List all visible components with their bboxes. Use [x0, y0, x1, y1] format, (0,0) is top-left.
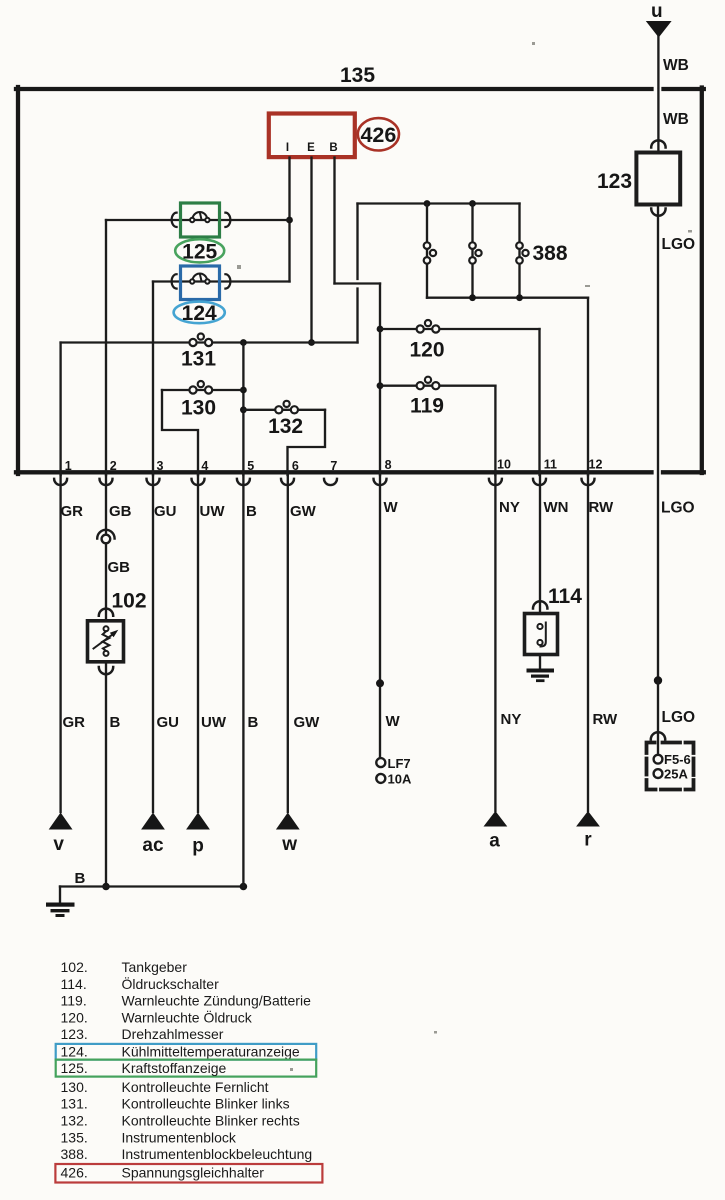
- wire WB from frame to tachometer 123: [657, 89, 659, 152]
- wire B horizontal segment: [335, 282, 381, 284]
- connector hook pin 6: [281, 479, 294, 485]
- wire pin 12 leg down: [587, 298, 589, 475]
- svg-text:124.: 124.: [61, 1043, 88, 1059]
- wire ground bus B: [60, 885, 243, 887]
- oil pressure switch 114 box: [525, 614, 558, 655]
- svg-text:Spannungsgleichhalter: Spannungsgleichhalter: [122, 1165, 265, 1181]
- svg-text:Instrumentenblock: Instrumentenblock: [122, 1129, 237, 1145]
- junction bottom bus drop 3: [516, 294, 523, 301]
- svg-text:132: 132: [268, 415, 303, 438]
- svg-text:Kontrolleuchte Blinker rechts: Kontrolleuchte Blinker rechts: [122, 1113, 300, 1129]
- svg-text:114: 114: [548, 585, 582, 608]
- legend row 125 highlight box green: [56, 1060, 317, 1077]
- connector hook pin 3: [147, 479, 160, 485]
- svg-text:NY: NY: [501, 711, 522, 728]
- svg-text:388.: 388.: [61, 1146, 88, 1162]
- voltage regulator 426 red box: [269, 114, 355, 158]
- svg-text:119.: 119.: [61, 993, 87, 1009]
- svg-text:RW: RW: [593, 711, 619, 728]
- svg-text:131: 131: [181, 348, 216, 371]
- wire GR pin 1 down to node v: [59, 475, 61, 812]
- callout 125 green ellipse: [175, 239, 224, 262]
- lamp 388 bulb 3: [516, 242, 528, 263]
- svg-text:Instrumentenblockbeleuchtung: Instrumentenblockbeleuchtung: [122, 1146, 313, 1162]
- scan speck: [434, 1031, 437, 1034]
- frame left edge: [16, 87, 20, 474]
- frame bottom edge right of LGO wire gap: [663, 470, 704, 474]
- svg-text:u: u: [651, 1, 663, 22]
- wire B down to pin 8: [379, 284, 381, 476]
- svg-text:UW: UW: [200, 503, 226, 520]
- svg-text:426: 426: [360, 123, 396, 147]
- scan speck: [290, 1068, 293, 1071]
- wire GB splice to tank sender 102: [105, 543, 107, 620]
- svg-text:GR: GR: [63, 714, 86, 731]
- connector hook above 114: [533, 601, 547, 608]
- connector hook below 123: [651, 209, 665, 216]
- frame right edge: [700, 88, 704, 474]
- chassis ground symbol left: [46, 903, 75, 918]
- junction 131 wire with pin 5 riser: [240, 339, 247, 346]
- lamp 119 charge warning: [417, 377, 440, 390]
- node r arrow: [576, 811, 600, 827]
- wire pin 5 riser from 131 row down: [242, 343, 244, 476]
- fuse LF7 10A circles: [376, 758, 385, 767]
- svg-text:119: 119: [410, 395, 444, 418]
- connector hook pin 11: [533, 479, 546, 485]
- wire B pin 5 down to ground bus: [242, 475, 244, 887]
- svg-text:12: 12: [589, 458, 603, 472]
- svg-text:Warnleuchte Öldruck: Warnleuchte Öldruck: [122, 1008, 253, 1025]
- wire riser from 131 row up to 388 bus (break at B wire crossover): [356, 204, 358, 343]
- lamp 120 oil pressure warning: [417, 320, 440, 333]
- svg-text:5: 5: [247, 459, 254, 473]
- wire fuel gauge 125 row: [106, 219, 290, 221]
- scan speck: [688, 230, 692, 233]
- connector hook pin 8: [374, 479, 387, 485]
- svg-text:GU: GU: [157, 714, 180, 731]
- meter symbol inside 124: [190, 274, 210, 284]
- wire 388 bottom bus to pin 12 riser: [427, 297, 588, 299]
- wire pin I of 426 down: [288, 158, 290, 282]
- svg-text:135: 135: [340, 64, 375, 87]
- svg-text:388: 388: [533, 242, 568, 265]
- connector hook pin 10: [489, 479, 502, 485]
- fuse element circles F5-6: [654, 755, 663, 764]
- svg-text:125: 125: [182, 240, 217, 263]
- svg-text:Tankgeber: Tankgeber: [122, 959, 188, 975]
- legend row 124 highlight box blue: [56, 1044, 317, 1060]
- wire 132 row: [243, 409, 325, 411]
- svg-text:132.: 132.: [61, 1113, 88, 1129]
- connector hook above fuse F5-6: [651, 732, 665, 739]
- svg-text:6: 6: [292, 459, 299, 473]
- wire LGO from junction to fuse F5-6: [657, 681, 659, 755]
- svg-text:GU: GU: [154, 503, 177, 520]
- svg-text:125.: 125.: [61, 1060, 88, 1076]
- svg-text:Kühlmitteltemperaturanzeige: Kühlmitteltemperaturanzeige: [122, 1043, 300, 1059]
- wire pin 1 leg down: [59, 343, 61, 476]
- callout 426 red ellipse: [358, 118, 399, 150]
- instrument cluster block 135 frame: [16, 87, 704, 474]
- svg-text:1: 1: [65, 459, 72, 473]
- junction on ground bus at GB wire: [102, 883, 110, 891]
- svg-text:114.: 114.: [61, 976, 87, 992]
- svg-text:102.: 102.: [61, 959, 88, 975]
- svg-text:GW: GW: [290, 503, 317, 520]
- svg-text:GB: GB: [108, 559, 131, 576]
- connector hook pin 2: [100, 479, 113, 485]
- svg-text:10A: 10A: [388, 772, 412, 787]
- node ac arrow: [141, 813, 165, 830]
- svg-text:10: 10: [497, 458, 511, 472]
- svg-text:130: 130: [181, 397, 216, 420]
- wire 119 row: [380, 385, 495, 387]
- connector hook pin 5: [237, 479, 250, 485]
- wire pin 11 leg down: [538, 329, 540, 475]
- connector hook pin 1: [54, 479, 67, 485]
- svg-text:GR: GR: [61, 503, 84, 520]
- junction 132 wire on pin 5 riser: [240, 406, 247, 413]
- svg-text:B: B: [248, 714, 259, 731]
- wire 125 left leg down to pin 2: [105, 220, 107, 475]
- callout 124 blue ellipse: [174, 302, 225, 324]
- svg-text:p: p: [192, 836, 204, 857]
- connector hook above 102: [99, 609, 113, 616]
- svg-text:NY: NY: [499, 499, 520, 516]
- junction on ground bus at pin 5 B wire: [240, 883, 248, 891]
- svg-text:123.: 123.: [61, 1026, 88, 1042]
- svg-text:W: W: [386, 713, 401, 730]
- svg-text:130.: 130.: [61, 1079, 88, 1095]
- coolant temp gauge 124 blue box: [181, 266, 220, 300]
- tank sender 102 box: [88, 621, 124, 662]
- node v arrow: [49, 813, 73, 830]
- svg-text:Kraftstoffanzeige: Kraftstoffanzeige: [122, 1060, 227, 1076]
- svg-text:w: w: [281, 834, 297, 855]
- wire B from 102 down to ground bus: [105, 662, 107, 887]
- svg-text:25A: 25A: [664, 767, 688, 782]
- wire NY pin 10 down to node a: [494, 475, 496, 811]
- junction E wire on 131 wire: [308, 339, 315, 346]
- connector hook right of 125: [225, 213, 230, 227]
- svg-text:Kontrolleuchte Blinker links: Kontrolleuchte Blinker links: [122, 1096, 290, 1112]
- svg-text:102: 102: [112, 590, 147, 613]
- svg-text:GB: GB: [109, 503, 132, 520]
- wire UW pin 4 down to node p: [197, 475, 199, 812]
- svg-text:7: 7: [330, 459, 337, 473]
- connector hook above 123: [651, 140, 665, 147]
- svg-text:B: B: [110, 714, 121, 731]
- svg-text:E: E: [307, 142, 315, 154]
- frame top edge right of WB wire gap: [664, 87, 704, 91]
- svg-text:135.: 135.: [61, 1129, 88, 1145]
- svg-text:WB: WB: [663, 57, 689, 74]
- wire coolant gauge 124 row: [153, 280, 290, 282]
- svg-text:RW: RW: [589, 499, 615, 516]
- variable resistor symbol inside 102: [94, 626, 119, 656]
- svg-text:WN: WN: [544, 499, 569, 516]
- svg-text:8: 8: [385, 458, 392, 472]
- connector hook pin 4: [192, 479, 205, 485]
- wire 388 drop 3: [518, 204, 520, 298]
- wire 124 left leg down to pin 3: [152, 282, 154, 476]
- svg-text:LGO: LGO: [662, 709, 696, 726]
- wire W pin 8 down to fuse LF7: [379, 475, 381, 758]
- wire RW pin 12 down to node r: [587, 475, 589, 811]
- connector hook pin 7 unused: [324, 479, 337, 485]
- svg-text:Drehzahlmesser: Drehzahlmesser: [122, 1026, 224, 1042]
- node u power feed arrow: [646, 21, 672, 38]
- wire 120 row: [380, 328, 540, 330]
- svg-text:GW: GW: [294, 714, 321, 731]
- wire 388 drop 2: [471, 204, 473, 298]
- svg-text:B: B: [246, 503, 257, 520]
- connector hook below 102: [99, 667, 113, 674]
- svg-text:120.: 120.: [61, 1009, 88, 1025]
- svg-text:UW: UW: [201, 714, 227, 731]
- svg-text:F5-6: F5-6: [664, 752, 691, 767]
- tachometer 123 box: [636, 153, 680, 205]
- svg-text:WB: WB: [663, 111, 689, 128]
- chassis ground symbol under 114: [527, 669, 555, 683]
- svg-text:2: 2: [110, 459, 117, 473]
- wire 388 lamp bank top bus: [358, 202, 520, 204]
- fuel gauge 125 green box: [181, 203, 220, 237]
- wire GB pin 2 down to splice: [105, 475, 107, 534]
- junction top bus drop 1: [424, 200, 431, 207]
- inline connector on GB wire: [97, 530, 114, 543]
- svg-text:Warnleuchte Zündung/Batterie: Warnleuchte Zündung/Batterie: [122, 993, 312, 1009]
- wire ground bus drop to chassis ground: [59, 887, 61, 904]
- frame bottom edge left of LGO wire gap: [16, 470, 652, 474]
- svg-text:131.: 131.: [61, 1096, 88, 1112]
- junction top bus drop 2: [469, 200, 476, 207]
- wire 388 drop 1: [426, 204, 428, 298]
- svg-text:Öldruckschalter: Öldruckschalter: [122, 975, 220, 992]
- svg-text:11: 11: [544, 458, 557, 472]
- svg-text:4: 4: [201, 459, 208, 473]
- svg-text:426.: 426.: [61, 1165, 88, 1181]
- wire 131 row from pin 1 corner to riser: [61, 341, 358, 343]
- junction splice on W wire: [376, 679, 384, 687]
- wire GU pin 3 down to node ac: [152, 475, 154, 812]
- connector hook right of 124: [225, 274, 230, 288]
- lamp 132 indicator right turn: [275, 401, 298, 414]
- wire pin 10 leg down: [494, 386, 496, 475]
- node p arrow: [186, 813, 210, 830]
- svg-text:B: B: [75, 870, 86, 887]
- lamp 130 high beam: [189, 381, 212, 394]
- lamp 388 bulb 2: [469, 242, 481, 263]
- wire GW pin 6 down to node w: [287, 475, 289, 812]
- wire LGO from 123 down through frame bottom: [657, 206, 659, 681]
- svg-text:3: 3: [157, 459, 164, 473]
- svg-text:120: 120: [409, 339, 444, 362]
- junction 120 wire on B riser: [377, 326, 384, 333]
- svg-text:124: 124: [182, 302, 217, 325]
- svg-text:ac: ac: [142, 835, 164, 856]
- scan speck: [237, 265, 241, 269]
- svg-text:I: I: [286, 142, 289, 154]
- node w arrow: [276, 813, 300, 830]
- junction 130 wire on pin 5 riser: [240, 387, 247, 394]
- scan speck: [532, 42, 535, 45]
- wire 130 row: [162, 389, 243, 391]
- wire from 114 to chassis ground: [539, 655, 541, 670]
- switch symbol inside 114: [537, 623, 545, 647]
- wire 132 staircase to pin 6: [288, 410, 326, 475]
- svg-text:Kontrolleuchte Fernlicht: Kontrolleuchte Fernlicht: [122, 1079, 269, 1095]
- wire pin E of 426 down to node at 131 wire: [310, 158, 312, 343]
- svg-text:a: a: [489, 831, 500, 852]
- junction on LGO wire: [654, 676, 662, 684]
- svg-text:LGO: LGO: [662, 236, 696, 253]
- connector hook left of 125: [172, 213, 177, 227]
- frame top edge left of WB wire gap: [16, 87, 652, 91]
- svg-text:B: B: [329, 142, 337, 154]
- svg-text:LF7: LF7: [388, 756, 411, 771]
- node a arrow: [484, 811, 508, 827]
- fuse F5-6 25A dashed box: [647, 743, 694, 790]
- lamp 131 indicator left turn: [189, 334, 212, 347]
- connector hook left of 124: [172, 274, 177, 288]
- svg-text:v: v: [53, 834, 64, 855]
- connector hook pin 12: [582, 479, 595, 485]
- scan speck: [585, 285, 590, 287]
- svg-text:r: r: [584, 830, 592, 851]
- junction I wire with fuel gauge 125 wire: [286, 217, 293, 224]
- junction bottom bus drop 2: [469, 294, 476, 301]
- junction 119 wire on B riser: [377, 382, 384, 389]
- wire pin B of 426 down: [333, 158, 335, 284]
- legend row 426 highlight box red: [55, 1164, 322, 1183]
- wire WB from node u down to frame: [657, 37, 659, 88]
- svg-text:LGO: LGO: [661, 500, 695, 517]
- lamp 388 bulb 1: [424, 242, 436, 263]
- svg-text:123: 123: [597, 170, 632, 193]
- wire WN pin 11 down to oil switch 114: [539, 475, 541, 613]
- svg-text:W: W: [384, 499, 399, 516]
- meter symbol inside 125: [190, 212, 210, 222]
- wire 130 staircase to pin 4: [162, 390, 198, 475]
